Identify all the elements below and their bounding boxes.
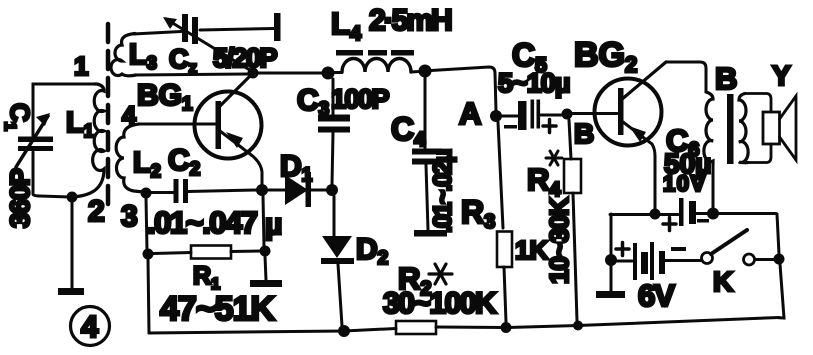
wire: left battery rail <box>610 214 613 256</box>
svg-text:C3: C3 <box>297 84 329 120</box>
wire: bottom of tank to node 2 <box>33 194 70 197</box>
bus junction dots <box>338 325 350 337</box>
antenna end bar <box>274 13 281 41</box>
node: L4 right junction <box>419 65 432 78</box>
svg-text:.01~.047: .01~.047 <box>147 205 257 240</box>
resistor R4 10~30K <box>564 159 581 193</box>
capacitor C3 100P <box>332 79 335 115</box>
svg-text:4: 4 <box>122 102 136 130</box>
wire: right rail <box>777 214 779 254</box>
ground (R1 right) <box>250 280 282 287</box>
svg-text:.01~.02µ: .01~.02µ <box>429 150 457 233</box>
svg-text:R4: R4 <box>527 162 561 201</box>
wire: node 2 down <box>71 202 74 288</box>
svg-text:6V: 6V <box>638 278 675 313</box>
wire: R1 left down to bottom bus <box>148 259 149 333</box>
svg-text:L2: L2 <box>133 147 161 181</box>
capacitor C2 <box>174 179 179 203</box>
node: emitter / C2 / D1 junction <box>256 184 268 196</box>
wire: secondary to speaker bottom <box>748 144 771 163</box>
node: BG1 collector top junction <box>248 68 259 79</box>
speaker Y <box>763 112 780 144</box>
wire: C6 row left <box>610 213 678 216</box>
C5 plus sign <box>543 120 556 133</box>
wire: L3 to collector node <box>135 74 248 75</box>
node: battery left junction <box>605 254 617 266</box>
transistor BG1 <box>195 92 262 159</box>
svg-text:Y: Y <box>772 60 791 91</box>
svg-text:C4: C4 <box>391 111 426 151</box>
svg-text:BG1: BG1 <box>137 79 193 115</box>
wire: primary bottom down <box>712 165 715 208</box>
transistor BG2 <box>595 79 662 146</box>
wire: BG2 collector to transformer <box>666 62 706 92</box>
output transformer B primary <box>704 92 713 165</box>
figure number 4 (circled) <box>71 307 110 346</box>
ground (node 2) <box>58 288 84 295</box>
wire: node B down to R4 <box>569 120 571 159</box>
svg-text:C2: C2 <box>168 144 200 180</box>
capacitor C6 50u 10V <box>679 198 684 226</box>
inductor L1 <box>77 84 104 197</box>
inductor L4 2.5mH <box>334 71 342 74</box>
svg-text:10V: 10V <box>663 171 707 196</box>
diode D2 <box>333 196 336 236</box>
svg-text:B: B <box>574 118 594 149</box>
svg-text:47~51K: 47~51K <box>160 290 275 328</box>
wire: secondary to speaker top <box>745 94 771 113</box>
svg-text:R1: R1 <box>193 262 220 293</box>
transformer core (dashed) <box>106 24 111 208</box>
output transformer B secondary <box>739 94 748 163</box>
battery 6V <box>616 260 632 263</box>
C6 plus sign <box>663 218 676 231</box>
wire: left vertical C1 branch <box>32 84 35 136</box>
C6 minus sign <box>697 219 709 223</box>
battery minus sign <box>671 247 686 251</box>
resistor R3 1K <box>497 232 512 268</box>
svg-text:10~30K: 10~30K <box>544 197 574 284</box>
svg-text:B: B <box>715 61 737 96</box>
svg-text:2: 2 <box>88 195 105 228</box>
wire: collector node to L4 node <box>258 72 323 75</box>
svg-text:3: 3 <box>121 200 138 233</box>
wire: down to ground <box>610 266 613 291</box>
wire: node 3 down to R1 <box>146 198 147 250</box>
switch K <box>702 253 713 264</box>
node B junction <box>562 109 573 120</box>
node: switch right junction <box>774 254 785 265</box>
wire: node 1 top wire <box>33 84 94 90</box>
resistor R2 30~100K (in bus) <box>396 321 436 334</box>
wire: top wire L4 to corner A <box>431 67 496 111</box>
capacitor C1 (variable, 360P) <box>18 137 53 143</box>
svg-text:L4: L4 <box>331 6 362 45</box>
inductor L2 <box>116 124 143 192</box>
svg-text:µ: µ <box>265 208 282 241</box>
wire: top wire through Cz <box>133 32 181 35</box>
node: C6 right / transformer bottom junction <box>707 208 719 220</box>
node 3 junction <box>141 188 152 199</box>
label R4 asterisk <box>546 151 562 165</box>
node: D1 cathode / C3 / D2 junction <box>326 184 338 196</box>
wire: bottom bus <box>149 329 396 334</box>
svg-text:D2: D2 <box>356 233 388 269</box>
label R2 asterisk <box>429 264 452 284</box>
svg-text:4: 4 <box>81 309 99 344</box>
svg-text:1: 1 <box>74 51 88 81</box>
wire: junction down to R1 right <box>263 196 264 246</box>
diode D1 <box>268 189 285 192</box>
svg-text:100P: 100P <box>331 84 390 114</box>
svg-text:5/20P: 5/20P <box>213 43 278 73</box>
node: BG2 emitter junction <box>650 209 661 220</box>
capacitor C5 5~10u <box>502 115 518 118</box>
svg-text:360P: 360P <box>5 168 35 228</box>
svg-text:C1: C1 <box>1 103 35 131</box>
svg-text:D1: D1 <box>280 150 313 186</box>
battery plus sign <box>616 243 629 256</box>
capacitor C4 .01~.02u <box>424 77 427 149</box>
transformer core bar <box>727 94 734 164</box>
svg-text:2·5mH: 2·5mH <box>369 4 451 37</box>
svg-text:R3: R3 <box>461 194 495 233</box>
svg-text:L1: L1 <box>66 107 94 141</box>
resistor R1 47~51K <box>143 249 154 260</box>
svg-text:L3: L3 <box>129 39 157 73</box>
svg-text:5~10µ: 5~10µ <box>498 68 569 98</box>
svg-text:Cz: Cz <box>169 44 197 77</box>
wire: node B to BG2 base <box>572 112 617 115</box>
trimmer capacitor Cz 5/20P <box>182 14 188 42</box>
node: L4 left junction <box>322 67 335 80</box>
svg-text:30~100K: 30~100K <box>383 287 497 320</box>
wire: node A down to R3 <box>498 122 503 228</box>
node A junction <box>490 110 502 122</box>
ground (battery) <box>596 291 625 298</box>
svg-text:K: K <box>713 266 733 297</box>
node 2 junction <box>67 192 78 203</box>
svg-text:BG2: BG2 <box>574 36 637 77</box>
inductor L3 <box>111 34 136 76</box>
svg-text:A: A <box>459 96 481 131</box>
C5 minus sign <box>504 125 517 129</box>
